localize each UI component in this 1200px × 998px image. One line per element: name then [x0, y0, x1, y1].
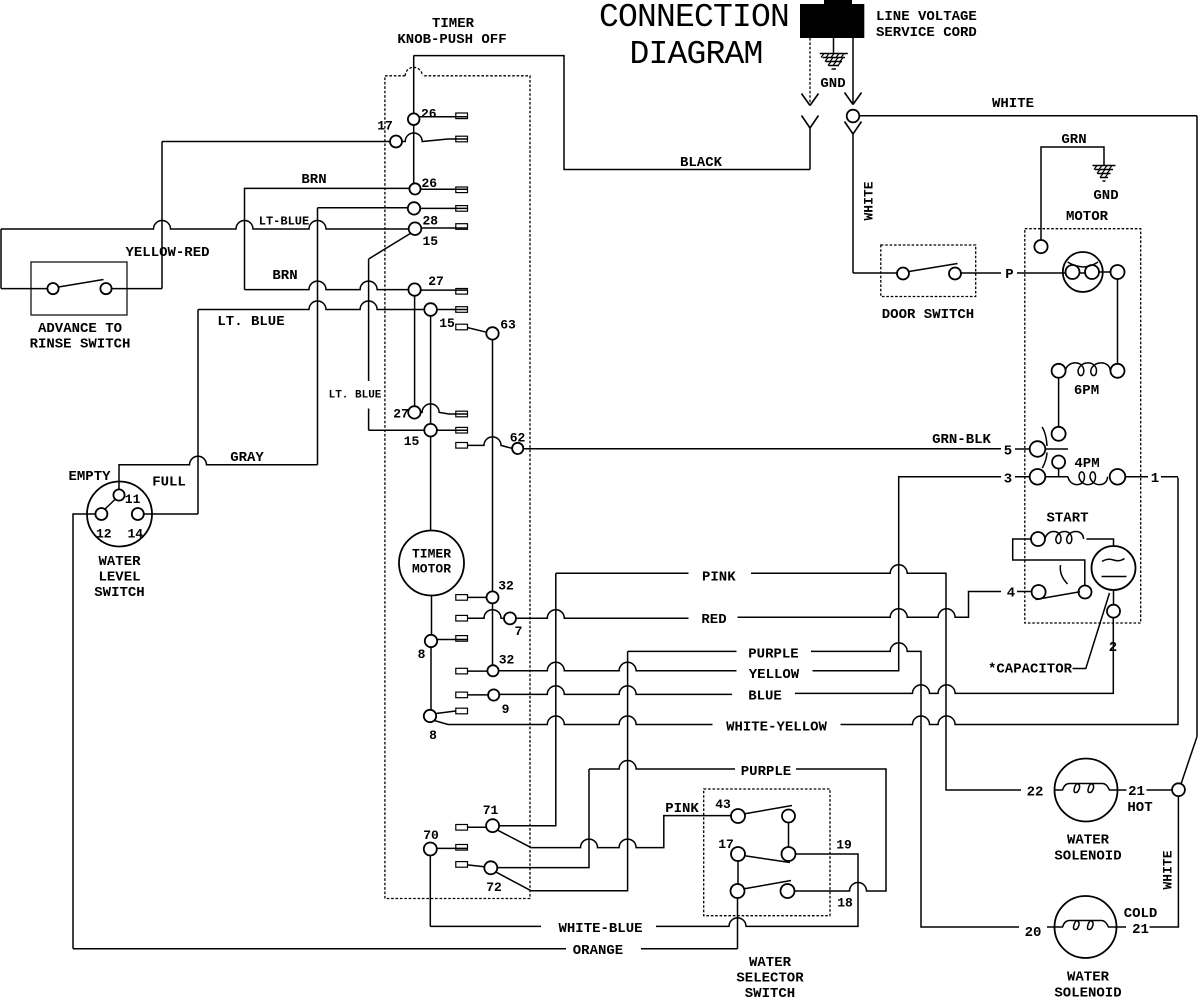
terminal 27 (second) [408, 406, 420, 418]
svg-text:DOOR SWITCH: DOOR SWITCH [882, 307, 974, 323]
svg-text:WATER: WATER [749, 955, 792, 971]
wire GRAY: water level 11 to x317.5 [119, 456, 318, 489]
svg-text:32: 32 [499, 653, 515, 668]
terminal 28 [408, 202, 420, 214]
wire spade to terminal 63 [468, 328, 487, 333]
svg-text:SOLENOID: SOLENOID [1054, 849, 1121, 865]
wire terminal 8b to spade [436, 711, 456, 714]
rinse switch left contact [47, 283, 58, 294]
arrowhead right lead [845, 93, 862, 105]
label WATER SOLENOID (cold) [1054, 970, 1121, 998]
svg-text:14: 14 [128, 527, 144, 542]
spade lug (32 first) [456, 595, 468, 601]
door switch right contact [949, 268, 961, 280]
selector arm 17 [745, 856, 790, 863]
terminal 15 (first) [409, 222, 422, 235]
centrifugal switch upper contact [1052, 427, 1066, 441]
timer box [385, 67, 530, 898]
wire into advance-to-rinse switch [1, 288, 48, 290]
wire LT. BLUE loop: from x198 to terminal 15 [198, 301, 424, 310]
protector heater arcs [1068, 262, 1099, 267]
wire capacitor to terminal 2 [1113, 590, 1115, 605]
water level contact 12 [95, 508, 107, 520]
svg-text:15: 15 [423, 234, 439, 249]
wire riser x162 up [161, 142, 163, 289]
svg-text:LEVEL: LEVEL [98, 570, 140, 586]
svg-text:28: 28 [423, 214, 439, 229]
svg-text:CONNECTION: CONNECTION [599, 0, 789, 36]
wire riser corner to terminal 15d [369, 429, 425, 431]
START coil left terminal [1031, 532, 1045, 546]
svg-text:20: 20 [1025, 925, 1042, 941]
svg-text:EMPTY: EMPTY [68, 469, 111, 485]
svg-text:9: 9 [502, 702, 510, 717]
wire terminal 26 to spade [420, 116, 468, 118]
svg-text:WATER: WATER [1067, 833, 1110, 849]
wire GRN-BLK 62 to motor 5 [523, 448, 1001, 450]
selector contact bottom-left [731, 884, 745, 898]
svg-text:P: P [1005, 267, 1013, 283]
svg-text:7: 7 [515, 624, 523, 639]
spade lug (71) [456, 825, 468, 831]
terminal 70 [424, 843, 437, 856]
wire WHITE-YELLOW: terminal 8b to motor 1 riser [435, 478, 1178, 725]
svg-text:4PM: 4PM [1074, 456, 1099, 472]
wire ORANGE right part to selector [641, 948, 738, 950]
wire 4PM top stub [1058, 469, 1060, 477]
svg-text:TIMER: TIMER [432, 16, 475, 32]
motor terminal 4 [1032, 585, 1046, 599]
svg-text:19: 19 [836, 838, 852, 853]
wire GRN from motor to ground [1041, 147, 1104, 240]
start switch actuator flick [1060, 565, 1067, 584]
6PM right terminal [1111, 364, 1125, 378]
plug: line voltage service cord [800, 0, 864, 38]
wire white lead down to door switch [852, 133, 854, 273]
spade lug (28) [456, 206, 468, 212]
svg-text:22: 22 [1027, 785, 1044, 801]
svg-text:27: 27 [393, 407, 409, 422]
wire BLACK: from timer top to plug left lead [414, 56, 811, 170]
door switch arm [909, 264, 958, 272]
svg-text:27: 27 [428, 274, 444, 289]
spade lug (7/red) [456, 615, 468, 621]
wire 72 feed riser x589 [497, 769, 589, 868]
svg-text:WHITE: WHITE [862, 181, 877, 220]
wire from 12 left and down to orange [73, 514, 95, 949]
terminal 62 [512, 443, 523, 454]
svg-text:YELLOW: YELLOW [749, 667, 800, 683]
svg-text:70: 70 [423, 828, 439, 843]
selector contact 17 [731, 847, 745, 861]
svg-text:LINE VOLTAGE: LINE VOLTAGE [876, 9, 977, 25]
terminal 71 [486, 819, 499, 832]
wire PURPLE: x627.6 corner to cold solenoid riser [628, 643, 1019, 927]
spade lug (9/blue) [456, 692, 468, 698]
terminal 8 (first) [425, 635, 437, 647]
wire BRN upper C-loop [245, 188, 410, 289]
svg-text:SWITCH: SWITCH [94, 585, 144, 601]
selector arm 43 [745, 806, 792, 814]
motor protector circle [1063, 252, 1103, 292]
door switch left contact [897, 268, 909, 280]
arrowhead left lead [802, 94, 819, 106]
selector contact mid-right [782, 847, 796, 861]
wire vertical x317.5 down to gray [317, 208, 319, 465]
spade lug (8a) [456, 636, 468, 642]
wire YELLOW-RED: left loop top [1, 221, 409, 230]
wire protector to terminal [1099, 271, 1111, 273]
wire vertical 8a to 8b [430, 647, 432, 710]
rinse switch arm [59, 280, 104, 288]
wire timer motor down to terminal 8 [431, 596, 433, 635]
svg-text:18: 18 [837, 896, 853, 911]
terminal 63 [486, 327, 498, 339]
svg-text:WATER: WATER [1067, 970, 1110, 986]
wire vertical 63 down to 32 [492, 340, 494, 592]
wire 28 branch from x317.5 [318, 207, 408, 209]
wire 72 to x627.6 riser [531, 651, 628, 890]
svg-text:KNOB-PUSH OFF: KNOB-PUSH OFF [397, 32, 506, 48]
4PM coil (loops below) [1068, 472, 1108, 485]
svg-text:WHITE-YELLOW: WHITE-YELLOW [726, 720, 827, 736]
wire 1: 4PM to white-yellow riser [1125, 476, 1178, 478]
svg-text:BLACK: BLACK [680, 155, 723, 171]
wire terminal 8a to spade [437, 639, 467, 641]
svg-text:3: 3 [1004, 472, 1012, 488]
wire vertical 32a to 32b [492, 603, 494, 665]
door switch box [881, 245, 976, 297]
svg-text:GRN: GRN [1061, 132, 1086, 148]
wire 17 down to bottom-left contact [737, 861, 739, 884]
capacitor circle [1092, 546, 1136, 590]
6PM left terminal [1052, 364, 1066, 378]
wire terminal 15c to spade [437, 309, 467, 311]
start switch arm [1036, 592, 1081, 600]
wire diagonal from 15a down-left [369, 233, 411, 259]
terminal 7 [504, 612, 516, 624]
wire ORANGE bottom [73, 948, 566, 950]
svg-text:SOLENOID: SOLENOID [1054, 986, 1121, 998]
wire 5 into motor [1015, 448, 1030, 450]
wire spade to 72 [468, 865, 485, 867]
wire spade to terminal 62 with hop [468, 437, 513, 449]
svg-text:12: 12 [96, 527, 112, 542]
wire vertical 15c to 15d [430, 316, 432, 424]
svg-text:21: 21 [1132, 922, 1149, 938]
label WATER LEVEL SWITCH [94, 554, 144, 601]
wire P to motor protector [1017, 272, 1063, 274]
label ADVANCE TO RINSE SWITCH [30, 321, 131, 353]
spade lug (15d) [456, 427, 468, 433]
START coil [1045, 532, 1084, 544]
wire 6PM left down to switch contact [1058, 378, 1060, 427]
label TIMER KNOB-PUSH OFF [397, 16, 506, 48]
svg-text:ADVANCE TO: ADVANCE TO [38, 321, 122, 337]
protector contact right [1085, 265, 1099, 279]
wire 3 to 4PM coil [1045, 476, 1068, 478]
wire vertical 15d to timer motor [430, 437, 432, 531]
spade lug (15c) [456, 307, 468, 313]
svg-text:MOTOR: MOTOR [412, 562, 451, 577]
svg-text:PURPLE: PURPLE [741, 764, 791, 780]
wire hot solenoid to 21 terminal [1118, 789, 1173, 791]
start switch right contact [1079, 586, 1092, 599]
hot solenoid coil [1055, 784, 1118, 793]
spade lug (26 top) [456, 113, 468, 119]
svg-text:LT. BLUE: LT. BLUE [217, 314, 284, 330]
selector contact top-right [782, 810, 795, 823]
spade lug (27b) [456, 411, 468, 417]
wire WHITE: from plug junction to right edge [859, 115, 1197, 117]
wire 5 contact stub [1045, 448, 1068, 450]
hot 21 terminal circle [1172, 783, 1185, 796]
ground symbol GND (motor) [1093, 166, 1116, 182]
wire white down right edge [1196, 116, 1198, 737]
wire diagonal white to hot solenoid terminal 21 [1181, 737, 1197, 784]
svg-text:26: 26 [421, 107, 437, 122]
svg-text:GND: GND [820, 76, 845, 92]
svg-text:WHITE: WHITE [1161, 850, 1176, 889]
wire bottom-left down (orange riser) [737, 898, 739, 949]
spade lug (63) [456, 324, 468, 330]
svg-text:BRN: BRN [301, 172, 326, 188]
wire to timer terminal 17 [162, 141, 390, 143]
wire diagonal 71 to pink feed [498, 830, 531, 847]
capacitor top plate [1102, 559, 1125, 562]
svg-text:15: 15 [404, 434, 420, 449]
selector arm bottom [744, 881, 791, 889]
wire from 14 to x198 [144, 513, 198, 515]
svg-text:43: 43 [715, 797, 731, 812]
centrifugal switch blade arcs [1042, 427, 1047, 468]
svg-text:32: 32 [498, 579, 514, 594]
water level switch body circle [87, 482, 152, 547]
spade lug (8b) [456, 708, 468, 714]
wire into door switch [853, 272, 897, 274]
6PM coil [1065, 363, 1110, 376]
label WATER SELECTOR SWITCH [736, 955, 804, 998]
wire BLUE: spade to motor 2 [468, 618, 1114, 695]
svg-text:RED: RED [701, 612, 726, 628]
svg-text:RINSE SWITCH: RINSE SWITCH [30, 337, 131, 353]
wire PINK: riser corner to hot solenoid 22 [556, 565, 1021, 790]
svg-text:GND: GND [1093, 188, 1118, 204]
svg-text:*CAPACITOR: *CAPACITOR [988, 662, 1073, 678]
motor box [1025, 229, 1141, 623]
wire terminal 15a to spade [421, 227, 467, 229]
wire terminal 26b to spade [421, 188, 467, 190]
wire terminal 70 to spade [437, 847, 467, 849]
wire spade to terminal 32a [468, 596, 487, 598]
svg-text:PINK: PINK [665, 801, 699, 817]
spade lug (72) [456, 862, 468, 868]
wire WHITE-BLUE: 70 to selector 19 riser [430, 854, 858, 926]
rinse switch right contact [100, 283, 111, 294]
capacitor pointer line [1073, 593, 1110, 669]
hot water solenoid circle [1055, 759, 1118, 822]
svg-text:LT-BLUE: LT-BLUE [259, 215, 309, 229]
svg-text:START: START [1046, 511, 1088, 527]
wire vertical 27a to 27b [414, 296, 416, 406]
terminal 26 (top) [408, 113, 420, 125]
node circle right lead (white wire junction) [847, 110, 860, 123]
wire terminal 28 to spade [420, 207, 467, 209]
timer motor circle [399, 531, 464, 596]
terminal 26 (second) [409, 183, 420, 194]
wire terminal 17 to spade with hop [402, 133, 467, 142]
svg-text:2: 2 [1109, 640, 1117, 656]
wire terminal 15d to spade [437, 429, 467, 431]
protector contact left [1066, 265, 1080, 279]
motor terminal 3 [1030, 469, 1046, 485]
spade lug (32b/yellow) [456, 668, 468, 674]
spade lug (15a) [456, 224, 468, 230]
wire diagonal 72 down to purple feed [496, 872, 531, 891]
spade lug (27a) [456, 289, 468, 295]
svg-text:17: 17 [377, 119, 393, 134]
wire left lead down to BLACK [809, 128, 811, 170]
wire PURPLE lower: x589 to selector 18 riser [589, 761, 886, 892]
svg-text:WHITE-BLUE: WHITE-BLUE [558, 921, 642, 937]
svg-text:FULL: FULL [152, 475, 186, 491]
selector contact bottom-right [781, 884, 795, 898]
terminal 32 (first) [487, 591, 499, 603]
svg-text:8: 8 [418, 647, 426, 662]
socket chevron right lead [845, 122, 862, 135]
label WATER SOLENOID (hot) [1054, 833, 1121, 865]
svg-text:11: 11 [125, 492, 141, 507]
wire top-right to mid-right [788, 823, 790, 848]
svg-text:SERVICE CORD: SERVICE CORD [876, 25, 977, 41]
wire START jog to switch contact [1013, 539, 1085, 586]
motor terminal (protector out) [1111, 265, 1125, 279]
wire timer knob feed down to terminal 26 [413, 56, 415, 184]
spade lug (62) [456, 443, 468, 449]
title CONNECTION DIAGRAM [599, 0, 789, 73]
service cord left lead wire [809, 38, 811, 105]
terminal 72 [484, 861, 497, 874]
selector contact 43 [731, 809, 745, 823]
svg-text:HOT: HOT [1127, 800, 1152, 816]
svg-text:6PM: 6PM [1074, 383, 1099, 399]
motor ground terminal [1034, 240, 1047, 253]
svg-text:BLUE: BLUE [748, 689, 782, 705]
wire cold solenoid to 21 [1117, 926, 1127, 928]
wire left border down [0, 229, 2, 289]
wire door switch to P [961, 272, 1001, 274]
svg-text:4: 4 [1007, 586, 1015, 602]
svg-text:SWITCH: SWITCH [745, 986, 795, 998]
svg-text:1: 1 [1151, 471, 1159, 487]
svg-text:17: 17 [718, 837, 734, 852]
svg-text:PINK: PINK [702, 570, 736, 586]
water level contact 11 [113, 489, 124, 500]
wire RED: spade to motor 4 [468, 592, 1032, 619]
terminal 17 [390, 136, 402, 148]
capacitor bottom plate [1102, 576, 1127, 578]
motor terminal 5 [1030, 441, 1046, 457]
cold water solenoid circle [1055, 896, 1117, 958]
svg-text:MOTOR: MOTOR [1066, 209, 1109, 225]
svg-text:62: 62 [510, 431, 526, 446]
water selector switch box [704, 789, 830, 916]
terminal 9 [488, 689, 499, 700]
wire 20 into cold solenoid [1047, 926, 1055, 928]
service cord right lead wire [852, 38, 854, 104]
socket chevron left lead [802, 116, 819, 129]
svg-text:WHITE: WHITE [992, 96, 1034, 112]
svg-text:5: 5 [1004, 444, 1012, 460]
wire BRN lower to terminal 27 [245, 281, 409, 289]
wire YELLOW: spade to motor 3 [468, 477, 1030, 671]
svg-text:ORANGE: ORANGE [573, 943, 623, 959]
svg-text:71: 71 [483, 803, 499, 818]
wire rinse switch to riser [112, 288, 162, 290]
wire 71 to selector 43 (pink) [531, 816, 731, 848]
svg-text:COLD: COLD [1124, 906, 1158, 922]
terminal 15 (third) [424, 303, 437, 316]
svg-text:BRN: BRN [272, 268, 297, 284]
svg-text:WATER: WATER [98, 554, 141, 570]
spade lug (26b) [456, 187, 468, 193]
wire right column down to 6PM [1117, 279, 1119, 364]
advance to rinse switch box [31, 262, 127, 315]
wire vertical x368.6 (lt blue riser) [368, 259, 370, 430]
svg-text:21: 21 [1128, 784, 1145, 800]
spade lug (17) [456, 136, 468, 142]
svg-text:72: 72 [486, 880, 502, 895]
terminal 32 (second) [487, 665, 498, 676]
terminal 8 (second) [424, 710, 436, 722]
ground symbol GND (service cord) [820, 38, 848, 69]
svg-text:63: 63 [500, 318, 516, 333]
svg-text:YELLOW-RED: YELLOW-RED [125, 245, 209, 261]
spade lug (70) [456, 845, 468, 851]
wire vertical x198 down to water level switch [197, 310, 199, 515]
svg-text:DIAGRAM: DIAGRAM [629, 36, 762, 73]
svg-text:15: 15 [439, 316, 455, 331]
water level switch arm 12-11 [105, 499, 116, 510]
water level contact 14 [132, 508, 144, 520]
svg-text:TIMER: TIMER [412, 547, 451, 562]
terminal 15 (fourth) [424, 424, 437, 437]
wire START coil to capacitor [1087, 539, 1114, 546]
svg-text:GRN-BLK: GRN-BLK [932, 432, 991, 448]
centrifugal switch lower contact (4PM top) [1052, 456, 1065, 469]
svg-text:SELECTOR: SELECTOR [736, 971, 804, 987]
wire 70 down to white-blue [429, 856, 431, 927]
label TIMER MOTOR [412, 547, 451, 577]
svg-text:8: 8 [429, 728, 437, 743]
motor terminal 2 [1107, 605, 1120, 618]
terminal 27 (first) [408, 283, 420, 295]
wire spade to 71 [468, 826, 487, 828]
svg-text:LT. BLUE: LT. BLUE [329, 390, 382, 402]
svg-text:PURPLE: PURPLE [748, 647, 798, 663]
svg-text:GRAY: GRAY [230, 450, 264, 466]
4PM right terminal [1110, 469, 1126, 485]
wire white 21 down to cold [1150, 796, 1179, 927]
wire terminal 27a to spade [421, 289, 467, 291]
label LINE VOLTAGE SERVICE CORD [876, 9, 977, 41]
wire 27b to spade with hop [421, 404, 467, 414]
wire riser x555.8 down to terminal 71 [499, 573, 556, 825]
cold solenoid coil [1055, 921, 1117, 930]
